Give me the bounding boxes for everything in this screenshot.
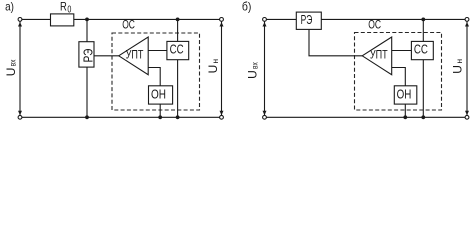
node junction ОН bottom (a) (158, 115, 162, 119)
svg-text:0: 0 (67, 4, 71, 15)
block РЭ (a) (79, 42, 94, 67)
terminal input bottom (b) (263, 115, 267, 119)
arrow down input bottom (b) (263, 111, 267, 116)
svg-text:СС: СС (170, 42, 184, 56)
wire sense drop to СС (a) (177, 19, 179, 41)
svg-text:н: н (454, 59, 464, 64)
terminal input bottom (a) (18, 115, 22, 119)
wire bottom rail (b) (266, 116, 465, 118)
terminal output top (b) (465, 18, 469, 22)
terminal output bottom (b) (465, 115, 469, 119)
dashed feedback box ОС (b) (355, 33, 442, 111)
wire ОН to bottom rail (a) (159, 104, 161, 117)
svg-text:R: R (60, 0, 67, 14)
wire top rail left segment (a) (22, 18, 51, 20)
svg-text:ОН: ОН (397, 87, 412, 101)
terminal input top (b) (263, 18, 267, 22)
wire СС to bottom rail (b) (422, 60, 424, 118)
terminal output top (a) (220, 18, 224, 22)
svg-text:вх: вх (7, 59, 17, 66)
svg-text:U: U (450, 65, 464, 74)
wire bottom rail (a) (22, 116, 220, 118)
op-amp УПТ (a) (119, 37, 149, 75)
node junction after R0 (85, 18, 89, 22)
dashed feedback box ОС (a) (112, 33, 200, 110)
wire УПТ to СС (b) (392, 50, 412, 52)
svg-text:РЭ: РЭ (301, 13, 313, 27)
wire УПТ to СС (a) (148, 50, 167, 52)
wire ОН to bottom rail (b) (404, 104, 406, 117)
block СС (a) (167, 41, 189, 59)
wire junction to РЭ (a) (86, 19, 88, 41)
block СС (b) (411, 41, 433, 59)
svg-text:ОС: ОС (368, 18, 381, 32)
block ОН (b) (394, 86, 417, 104)
arrow down output bottom (a) (220, 111, 224, 116)
wire РЭ to УПТ (b) (309, 29, 362, 55)
svg-text:ОН: ОН (151, 87, 166, 101)
wire top rail right segment (b) (321, 18, 465, 20)
wire top rail left segment (b) (266, 18, 296, 20)
node junction СС bottom (a) (176, 115, 180, 119)
arrow up input top (b) (263, 22, 267, 27)
node junction above СС (b) (421, 18, 425, 22)
wire right rail (b) (466, 22, 468, 116)
arrow down output bottom (b) (465, 111, 469, 116)
svg-text:н: н (210, 59, 220, 64)
svg-text:а): а) (5, 0, 14, 14)
wire top rail right segment (a) (74, 18, 220, 20)
arrow up output top (a) (220, 22, 224, 27)
svg-text:б): б) (242, 0, 252, 14)
svg-text:УПТ: УПТ (370, 47, 388, 61)
svg-text:СС: СС (414, 43, 428, 57)
wire left rail (b) (264, 22, 266, 116)
svg-text:вх: вх (249, 62, 259, 69)
wire РЭ to bottom rail (a) (86, 67, 88, 117)
wire sense drop to СС (b) (422, 19, 424, 41)
arrow up output top (b) (465, 22, 469, 27)
terminal output bottom (a) (220, 115, 224, 119)
node junction РЭ bottom (a) (85, 115, 89, 119)
node junction СС bottom (b) (421, 115, 425, 119)
svg-text:РЭ: РЭ (81, 49, 95, 63)
block ОН (a) (149, 86, 173, 104)
node junction above СС (a) (176, 18, 180, 22)
block РЭ (b) (296, 12, 321, 29)
terminal input top (a) (18, 18, 22, 22)
node junction ОН bottom (b) (403, 115, 407, 119)
wire УПТ to ОН (a) (148, 68, 160, 86)
arrow up input top (a) (18, 22, 22, 27)
svg-text:УПТ: УПТ (126, 47, 144, 61)
svg-text:ОС: ОС (122, 18, 135, 32)
svg-text:U: U (206, 65, 220, 74)
arrow down input bottom (a) (18, 111, 22, 116)
wire СС to bottom rail (a) (177, 60, 179, 118)
svg-text:U: U (4, 68, 18, 77)
op-amp УПТ (b) (362, 37, 392, 75)
wire left rail (a) (19, 22, 21, 116)
wire right rail (a) (221, 22, 223, 116)
resistor R0 (51, 14, 74, 26)
wire РЭ to УПТ (a) (94, 55, 119, 57)
svg-text:U: U (246, 70, 260, 79)
wire УПТ to ОН (b) (392, 68, 406, 86)
